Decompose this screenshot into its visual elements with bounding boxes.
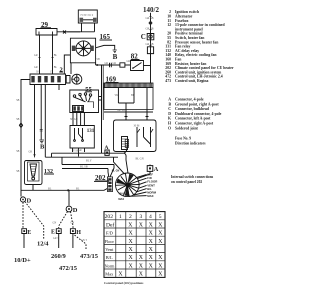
svg-text:12: 12 [167, 23, 171, 27]
svg-text:202: 202 [105, 214, 114, 220]
svg-text:GR SB: GR SB [146, 17, 154, 20]
svg-text:GN: GN [71, 222, 75, 225]
svg-text:3: 3 [140, 214, 143, 220]
wire label GN T [81, 239, 87, 242]
svg-text:GR T: GR T [53, 237, 59, 240]
wires 55 to trunk [99, 97, 102, 101]
resistor tap labels [115, 94, 135, 97]
wire y185 [68, 190, 70, 205]
svg-text:10/D+: 10/D+ [14, 257, 31, 264]
connector D left [20, 197, 25, 202]
svg-text:GR: GR [34, 54, 38, 57]
svg-text:F/D: F/D [106, 231, 113, 236]
svg-text:Soldered joint: Soldered joint [175, 126, 199, 130]
svg-text:Fuse No. 9: Fuse No. 9 [175, 136, 191, 140]
svg-text:SB: SB [16, 170, 19, 173]
svg-text:E: E [27, 230, 31, 236]
wire fan box bottom stub [70, 63, 72, 74]
label 12/4 [37, 241, 49, 248]
wire 132 bottom to junction [21, 185, 107, 191]
arrowhead into 132 [34, 154, 36, 158]
wire resistor right tap down [146, 88, 148, 118]
svg-text:B/L: B/L [106, 255, 113, 260]
svg-text:473: 473 [165, 79, 171, 83]
control panel connector strip [107, 177, 112, 192]
switch wedge [125, 185, 130, 196]
label 140/2 [143, 6, 159, 14]
connector arrow [148, 21, 152, 26]
fan hub diamond [81, 46, 86, 51]
switch position labels [112, 170, 158, 201]
svg-text:Dashboard connector, 4-pole: Dashboard connector, 4-pole [175, 112, 222, 116]
svg-text:A: A [154, 166, 159, 173]
svg-text:BL: BL [131, 94, 135, 97]
wires 55 down to relay 131 [73, 113, 84, 126]
svg-text:Max: Max [105, 272, 114, 277]
svg-text:1: 1 [119, 214, 122, 220]
wire fan to ground [96, 45, 115, 49]
ground point B [39, 140, 44, 143]
svg-text:D: D [73, 207, 78, 214]
wire labels BL [48, 187, 80, 190]
connector 29 box [36, 29, 57, 36]
relay 131 contacts [75, 128, 83, 140]
fuse element no 9 [80, 19, 96, 21]
svg-text:H: H [76, 230, 81, 236]
fan motor circle [76, 41, 91, 56]
svg-text:GN T: GN T [81, 239, 87, 242]
underline 165 [100, 39, 113, 41]
wire BL SB [104, 111, 153, 113]
svg-text:MAX: MAX [147, 194, 153, 198]
note internal switch [171, 175, 214, 184]
svg-text:C: C [168, 107, 171, 111]
wire fan lower to sensor 82 [96, 63, 120, 65]
rotary switch 202 [116, 173, 140, 197]
connector A upper [147, 166, 153, 172]
label 169 [106, 76, 117, 84]
svg-text:K: K [168, 117, 171, 121]
svg-text:MAX: MAX [119, 191, 125, 195]
svg-text:GR SB: GR SB [146, 28, 154, 31]
ignition switch 2 block [30, 74, 66, 85]
motor terminal right [90, 46, 94, 51]
legend numbers [165, 10, 234, 83]
trunk wire labels [78, 149, 92, 163]
label 10/D+ [14, 257, 31, 264]
svg-text:30 86: 30 86 [134, 125, 141, 128]
wire label BL GN [136, 158, 144, 161]
svg-text:E: E [51, 230, 55, 236]
svg-text:473/15: 473/15 [80, 253, 99, 260]
svg-text:140/2: 140/2 [143, 6, 159, 14]
heater fan switch 55 box [70, 90, 99, 113]
connector A lower [105, 150, 109, 155]
relay 140 box [114, 120, 157, 152]
svg-text:Connector, 4-pole: Connector, 4-pole [175, 98, 204, 102]
svg-text:Ground point, right A-post: Ground point, right A-post [175, 102, 219, 106]
underline 2 [59, 71, 63, 73]
svg-text:5: 5 [159, 214, 162, 220]
label 132 [44, 169, 53, 175]
wire labels GN [53, 222, 75, 225]
dashed D to E1 [22, 202, 24, 228]
svg-text:SB GN: SB GN [70, 118, 78, 121]
wire 2 to switch 55 [58, 85, 60, 91]
wire 202 left [94, 180, 107, 182]
underline 29 [41, 27, 52, 29]
dashed D to 12/4 [25, 202, 44, 241]
svg-text:260/9: 260/9 [51, 253, 67, 260]
label 473/15 [80, 253, 99, 260]
wire 2 to ground B [40, 85, 42, 140]
svg-text:FUSE NO 9: FUSE NO 9 [81, 14, 94, 17]
wire color labels 29 [34, 54, 58, 69]
label 131 [87, 129, 95, 134]
wire label GR T [53, 237, 59, 240]
dashed D2 legs [59, 212, 68, 229]
svg-text:BL SB: BL SB [80, 166, 88, 169]
svg-text:Relay, electric cooling fan: Relay, electric cooling fan [175, 53, 217, 57]
connector E1 [22, 229, 27, 234]
svg-text:BL: BL [54, 54, 58, 57]
svg-text:Direction indicators: Direction indicators [175, 142, 206, 146]
label 55 [85, 86, 92, 93]
svg-text:GR: GR [113, 62, 117, 65]
wire 2 to trunk [44, 85, 46, 158]
connector C marks [110, 63, 112, 67]
svg-text:SB: SB [16, 99, 19, 102]
underline 169 [106, 82, 119, 84]
resistor 169 box [104, 88, 153, 110]
svg-text:C: C [141, 33, 146, 41]
svg-text:D: D [168, 112, 171, 116]
wire 29 left pin down [39, 35, 41, 74]
svg-text:4: 4 [149, 214, 152, 220]
svg-text:Control panel (202) positions: Control panel (202) positions [104, 281, 144, 285]
svg-text:Norm: Norm [105, 263, 116, 268]
svg-text:GR: GR [105, 62, 109, 65]
svg-text:GN: GN [53, 222, 57, 225]
wire 2 to 132 relay [34, 85, 36, 157]
svg-text:BL Y: BL Y [86, 160, 92, 163]
svg-text:O: O [168, 126, 171, 130]
relay coil [122, 137, 128, 150]
underline 202 [95, 180, 109, 182]
svg-text:Connector, bulkhead: Connector, bulkhead [175, 107, 210, 111]
pressure sensor 82 box [131, 61, 144, 71]
table control panel positions [104, 212, 165, 278]
svg-text:12/4: 12/4 [37, 241, 49, 248]
svg-text:GR: GR [127, 60, 131, 63]
svg-text:Connector, left A-post: Connector, left A-post [175, 117, 211, 121]
AC delay relay 132 [25, 161, 43, 185]
switch leader lines [129, 175, 147, 197]
relay contacts [137, 127, 151, 147]
svg-text:D: D [27, 198, 32, 205]
connector diamond K [19, 123, 22, 128]
tick 29 wires [38, 57, 53, 59]
ignition switch 2 label [60, 66, 63, 73]
wire color label GR [29, 151, 33, 154]
label 165 [100, 33, 111, 41]
svg-text:on control panel 202: on control panel 202 [171, 180, 202, 184]
svg-text:Control unit, Regina: Control unit, Regina [175, 79, 208, 83]
legend letters [168, 98, 222, 131]
svg-text:GR SB: GR SB [146, 43, 154, 46]
wire H down [72, 234, 74, 249]
svg-text:SB: SB [16, 118, 19, 121]
wire 140/2 down [150, 13, 152, 60]
underline 82 [131, 59, 140, 61]
svg-text:GR: GR [78, 149, 82, 152]
svg-text:H: H [168, 122, 171, 126]
table caption [104, 281, 144, 285]
fan relay 131 [70, 126, 94, 149]
inline connector box [120, 63, 125, 67]
note fuse [175, 136, 206, 145]
dashed H to 473/15 [75, 235, 87, 250]
svg-text:Internal switch connections: Internal switch connections [171, 175, 214, 179]
switch spokes [116, 173, 139, 196]
svg-text:Connector, right A-post: Connector, right A-post [175, 122, 214, 126]
wire color labels Y SB [73, 150, 79, 153]
nested corner wires into switch [62, 157, 128, 177]
label 260/9 [51, 253, 67, 260]
inline component [147, 47, 153, 54]
switch 55 pin strip [73, 106, 84, 112]
underline 55 [85, 91, 92, 93]
heater fan motor 165 box [70, 38, 95, 63]
svg-text:SB: SB [16, 150, 19, 153]
ground B top right [113, 50, 117, 53]
pin labels 30 15 [36, 71, 53, 74]
svg-text:B: B [40, 144, 45, 151]
svg-text:SB: SB [97, 58, 100, 61]
svg-text:Def: Def [106, 221, 115, 228]
trunk horizontals to control panel [45, 153, 126, 164]
fusebox 11 [78, 10, 97, 23]
svg-text:BL GN: BL GN [136, 158, 144, 161]
control panel 202 label [95, 174, 106, 182]
wire 29 to fusebox [57, 31, 80, 33]
wire connector A to switch [138, 165, 151, 179]
connector E2 [51, 230, 55, 236]
svg-text:A: A [168, 98, 171, 102]
label 82 [131, 53, 139, 61]
junction x [63, 31, 66, 34]
svg-text:2: 2 [129, 214, 132, 220]
wire color labels SB GN [70, 118, 78, 121]
wire 29 right pin down [52, 35, 54, 74]
svg-text:GR: GR [29, 151, 33, 154]
wires 131 down [73, 148, 85, 157]
wire color labels left trunk [16, 99, 19, 173]
switch rotor circle [72, 74, 82, 84]
connector H [70, 229, 75, 234]
svg-text:131: 131 [87, 129, 95, 134]
svg-text:GR: GR [34, 66, 38, 69]
label 29 [41, 21, 49, 29]
svg-text:Floor: Floor [105, 239, 115, 244]
svg-text:BL: BL [48, 187, 52, 190]
svg-text:VR: VR [115, 94, 119, 97]
svg-text:BL SB: BL SB [118, 109, 126, 112]
wire 2 to left trunk [21, 80, 30, 197]
connector stub box [66, 76, 70, 84]
svg-text:A: A [105, 145, 109, 151]
svg-text:MAX: MAX [118, 197, 124, 201]
svg-text:Vent: Vent [105, 247, 114, 252]
svg-text:BL: BL [54, 66, 58, 69]
connector D center [66, 206, 72, 212]
wire E1 down [23, 234, 25, 249]
wire y168 [62, 168, 108, 170]
motor terminal left [72, 46, 76, 51]
pins into 140 [125, 117, 149, 121]
svg-text:B: B [113, 53, 118, 61]
underline 132 [44, 173, 54, 175]
svg-text:BL: BL [76, 187, 80, 190]
connector O hatched [125, 139, 128, 147]
wire color labels near fan/82 [97, 58, 131, 65]
resistor 169 strip [104, 83, 153, 88]
trunk vertical [101, 65, 103, 153]
svg-text:BL GN: BL GN [112, 170, 120, 173]
wire fusebox loop [67, 23, 95, 32]
connector C bulkhead [141, 33, 146, 41]
ticks on 140/2 wire [149, 16, 151, 45]
wire fan box left down [64, 55, 70, 74]
svg-text:472/15: 472/15 [59, 265, 78, 272]
wire E2 down [58, 234, 60, 249]
label 472/15 [59, 265, 78, 272]
